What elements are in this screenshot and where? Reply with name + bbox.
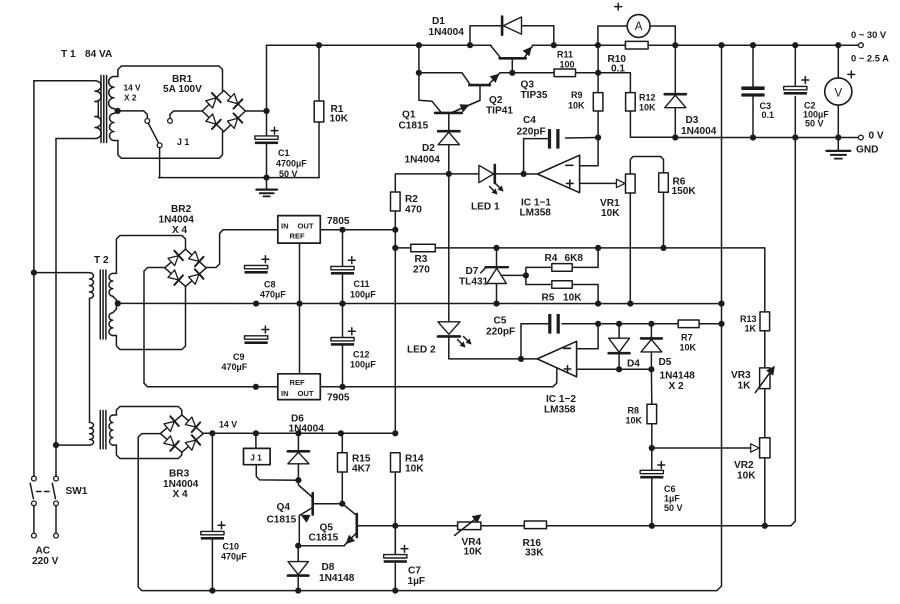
svg-text:R4: R4 bbox=[545, 253, 558, 264]
wire AC line right bbox=[55, 139, 57, 477]
diode D8 (1N4148) bbox=[288, 562, 308, 575]
wire IC1-1 noninverting to VR1 wiper bbox=[580, 182, 618, 184]
wire D1 bypass loop bbox=[470, 26, 554, 46]
transistor Q4 bbox=[311, 493, 314, 514]
svg-text:V: V bbox=[834, 87, 842, 99]
diode D3 (1N4004) bbox=[665, 93, 686, 96]
wire voltmeter column bbox=[837, 45, 839, 78]
svg-text:220pF: 220pF bbox=[486, 327, 515, 338]
wire Q3 collector bbox=[491, 45, 502, 58]
wire T2 primary bottom lead bbox=[56, 444, 90, 446]
transistor Q1 bbox=[435, 112, 462, 115]
wire R9 column bbox=[597, 45, 599, 92]
transistor Q3 bbox=[500, 57, 526, 60]
svg-text:84 VA: 84 VA bbox=[85, 49, 113, 60]
resistor R4 bbox=[552, 264, 572, 272]
svg-text:J 1: J 1 bbox=[177, 137, 189, 147]
wire Q3 base bbox=[511, 60, 513, 73]
transformer T2 core upper bbox=[99, 270, 101, 339]
svg-text:VR3: VR3 bbox=[731, 370, 751, 381]
wire LED2 to IC1-2 output bbox=[449, 356, 537, 359]
wire T1 secondary top to BR1 bbox=[118, 66, 223, 91]
terminal AC N bbox=[55, 505, 57, 533]
svg-text:R11: R11 bbox=[557, 50, 573, 60]
wire AC line left bbox=[33, 81, 35, 477]
resistor R2 bbox=[391, 192, 401, 211]
svg-text:BR3: BR3 bbox=[169, 469, 190, 480]
svg-text:R7: R7 bbox=[681, 333, 693, 343]
shunt regulator D7 (TL431) bbox=[485, 266, 508, 268]
diode D5 (1N4148) bbox=[641, 337, 662, 340]
transformer T3 secondary coil bbox=[109, 415, 113, 445]
svg-text:D5: D5 bbox=[659, 357, 672, 368]
svg-text:0.1: 0.1 bbox=[762, 110, 775, 120]
wire 0V sense drop to control rail bbox=[765, 138, 796, 526]
wire C4 link bbox=[524, 139, 548, 174]
svg-text:10K: 10K bbox=[626, 416, 643, 426]
svg-text:4700µF: 4700µF bbox=[276, 159, 307, 169]
svg-text:R3: R3 bbox=[415, 254, 428, 265]
svg-text:10K: 10K bbox=[563, 293, 582, 304]
svg-text:100: 100 bbox=[560, 60, 575, 70]
svg-text:C4: C4 bbox=[523, 115, 536, 126]
svg-text:BR2: BR2 bbox=[171, 204, 192, 215]
ground symbol GND bbox=[837, 140, 839, 151]
resistor R12 bbox=[626, 93, 636, 111]
wire C11 column bbox=[342, 230, 344, 266]
svg-text:C1: C1 bbox=[278, 148, 290, 158]
wire C12 column bbox=[342, 304, 344, 338]
svg-text:10K: 10K bbox=[568, 101, 585, 111]
svg-text:VR2: VR2 bbox=[734, 460, 754, 471]
svg-text:D1: D1 bbox=[432, 16, 445, 27]
svg-text:1N4004: 1N4004 bbox=[681, 126, 717, 137]
wire Q4 emitter drop bbox=[298, 516, 300, 544]
wire T3 secondary bottom to BR3 bbox=[116, 445, 181, 458]
diode D4 (1N4148) bbox=[609, 338, 630, 352]
wire Q2 emitter to Q3 base node bbox=[488, 73, 512, 85]
regulator 7905 box bbox=[278, 374, 321, 400]
relay J1 box bbox=[244, 448, 271, 464]
wire voltage set wiper line bbox=[652, 447, 751, 449]
ammeter A1 bbox=[627, 15, 650, 38]
wire IC1-2 inverting input bbox=[577, 324, 599, 349]
wire R5 right lead bbox=[572, 285, 598, 304]
svg-text:10K: 10K bbox=[330, 114, 349, 125]
wire main positive rail right segment (Q3 emitter to +V terminal) bbox=[533, 44, 859, 46]
svg-text:0 ~ 30 V: 0 ~ 30 V bbox=[851, 29, 887, 40]
svg-text:R12: R12 bbox=[639, 93, 656, 103]
wire IC1-1 output to LED1 node bbox=[524, 173, 538, 175]
wire R15 column bbox=[341, 433, 343, 453]
wire BR1 output bbox=[245, 110, 266, 112]
transformer T1 core bbox=[100, 76, 102, 143]
resistor R3 bbox=[411, 244, 436, 252]
wire control rail bbox=[395, 525, 457, 527]
svg-text:7905: 7905 bbox=[327, 393, 350, 404]
resistor R7 bbox=[678, 320, 699, 328]
wire T1 primary top lead bbox=[34, 80, 95, 82]
wire 7905 out to IC1-2 + bbox=[320, 368, 557, 387]
transformer T2 primary coil lower bbox=[90, 422, 94, 445]
svg-text:D2: D2 bbox=[422, 143, 435, 154]
svg-text:Q4: Q4 bbox=[277, 502, 291, 513]
diode D1 bbox=[501, 17, 504, 35]
svg-text:33K: 33K bbox=[525, 548, 544, 559]
wire J1 common drop bbox=[159, 148, 161, 178]
resistor R16 bbox=[524, 521, 546, 529]
wire C2 column upper bbox=[794, 45, 796, 86]
transistor Q5 bbox=[355, 514, 358, 537]
op-amp U2 IC1-2 (LM358) bbox=[537, 341, 576, 377]
svg-text:C1815: C1815 bbox=[309, 533, 339, 544]
wire BR2 in+ to 7805 bbox=[206, 230, 278, 268]
wire T1 primary bottom lead bbox=[56, 138, 95, 140]
bridge rectifier BR1 bbox=[202, 91, 224, 112]
wire clamp rail bbox=[598, 323, 678, 325]
wire R6 bottom bbox=[663, 192, 665, 248]
wire D7 ref bbox=[502, 274, 526, 276]
svg-text:10K: 10K bbox=[601, 208, 620, 219]
wire R4 left lead bbox=[526, 267, 552, 284]
svg-text:100µF: 100µF bbox=[350, 289, 376, 299]
wire C10 column bbox=[211, 433, 213, 531]
wire D2 column bbox=[448, 114, 450, 130]
wire T2 secondary top to BR2 bbox=[116, 236, 185, 274]
diode D2 (1N4004) bbox=[438, 130, 459, 133]
resistor R10 bbox=[625, 41, 648, 49]
wire C1 column bbox=[266, 111, 268, 136]
svg-text:1N4004: 1N4004 bbox=[405, 155, 441, 166]
svg-text:5A 100V: 5A 100V bbox=[163, 84, 202, 95]
wire R11 leads bbox=[512, 72, 554, 74]
bridge rectifier BR3 bbox=[160, 415, 181, 434]
svg-text:D8: D8 bbox=[322, 562, 335, 573]
wire D8 column bbox=[297, 546, 299, 562]
svg-text:C1815: C1815 bbox=[267, 515, 297, 526]
capacitor C1 bbox=[255, 136, 278, 139]
transformer T2 core lower bbox=[99, 411, 101, 449]
wire 14V rail bbox=[203, 432, 395, 434]
wire 7805 ref bbox=[299, 243, 301, 304]
svg-text:1N4148: 1N4148 bbox=[319, 573, 355, 584]
wire R12 jog and leads bbox=[598, 73, 630, 93]
svg-text:R8: R8 bbox=[628, 406, 640, 416]
svg-text:Q1: Q1 bbox=[402, 110, 416, 121]
svg-text:LED 2: LED 2 bbox=[407, 345, 436, 356]
svg-text:10K: 10K bbox=[639, 103, 656, 113]
wire D6 column bbox=[297, 433, 299, 450]
wire long vertical (R2/R14 column) upper bbox=[394, 211, 396, 433]
svg-text:1N4004: 1N4004 bbox=[159, 215, 195, 226]
svg-text:D4: D4 bbox=[627, 359, 640, 370]
capacitor C4 bbox=[548, 129, 551, 149]
svg-text:470: 470 bbox=[405, 205, 422, 216]
wire BR2 in- to 7905 bbox=[144, 268, 278, 387]
resistor R13 bbox=[760, 312, 770, 331]
capacitor C2 bbox=[784, 86, 807, 89]
wire R1 column bbox=[318, 45, 320, 101]
op-amp U1 IC1-1 (LM358) bbox=[537, 155, 579, 193]
jumper J1 lever bbox=[148, 123, 159, 143]
potentiometer VR2 bbox=[760, 438, 770, 458]
svg-text:14 V: 14 V bbox=[219, 420, 237, 430]
svg-text:6K8: 6K8 bbox=[565, 253, 584, 264]
svg-text:1µF: 1µF bbox=[664, 494, 680, 504]
svg-text:D7: D7 bbox=[466, 266, 479, 277]
svg-text:C12: C12 bbox=[353, 350, 370, 360]
wire C7 leads bbox=[394, 526, 396, 555]
capacitor C10 bbox=[201, 531, 224, 534]
svg-text:D3: D3 bbox=[686, 115, 699, 126]
wire LED1 wire bbox=[449, 173, 479, 175]
svg-text:X 4: X 4 bbox=[173, 489, 189, 500]
wire T3 secondary top to BR3 bbox=[116, 407, 181, 416]
transformer T2 secondary coil a bbox=[109, 273, 113, 296]
wire long vertical lower bbox=[394, 472, 396, 526]
svg-text:R9: R9 bbox=[571, 90, 583, 100]
svg-text:10K: 10K bbox=[737, 471, 756, 482]
svg-text:C9: C9 bbox=[233, 352, 245, 362]
transformer T2 primary coil upper bbox=[90, 273, 94, 299]
svg-text:C5: C5 bbox=[494, 316, 507, 327]
svg-text:LM358: LM358 bbox=[520, 208, 552, 219]
svg-text:LED 1: LED 1 bbox=[471, 202, 500, 213]
svg-text:REF: REF bbox=[290, 378, 306, 387]
svg-text:X 4: X 4 bbox=[172, 225, 188, 236]
wire C3 column bbox=[752, 45, 754, 86]
svg-text:50 V: 50 V bbox=[279, 169, 298, 179]
svg-text:100µF: 100µF bbox=[350, 360, 376, 370]
wire 0V rail bbox=[675, 137, 859, 139]
bridge rectifier BR2 bbox=[165, 249, 186, 268]
svg-text:J 1: J 1 bbox=[250, 453, 262, 463]
transformer T2 secondary coil b bbox=[109, 313, 113, 336]
capacitor C7 bbox=[384, 555, 407, 558]
svg-text:GND: GND bbox=[856, 145, 878, 156]
svg-text:C11: C11 bbox=[354, 279, 370, 289]
svg-text:1µF: 1µF bbox=[408, 576, 426, 587]
wire ground link C1/R1/J1 bbox=[159, 177, 319, 179]
svg-text:470µF: 470µF bbox=[221, 552, 247, 562]
svg-text:4K7: 4K7 bbox=[352, 464, 371, 475]
svg-text:IC 1−2: IC 1−2 bbox=[546, 394, 576, 405]
svg-text:0 ~ 2.5 A: 0 ~ 2.5 A bbox=[851, 53, 889, 64]
wire mid reference rail bbox=[118, 302, 722, 304]
wire R4 right lead bbox=[572, 248, 598, 268]
svg-text:10K: 10K bbox=[680, 343, 697, 353]
wire VR1 top loop to R6 bbox=[630, 157, 663, 175]
wire T1 secondary bottom to BR1 bbox=[118, 131, 223, 158]
svg-text:220pF: 220pF bbox=[517, 127, 546, 138]
switch SW1 link bbox=[37, 491, 50, 493]
svg-text:C10: C10 bbox=[223, 542, 240, 552]
svg-text:R5: R5 bbox=[542, 293, 555, 304]
transformer T1 secondary coil lower bbox=[110, 114, 115, 141]
wire J1 relay bottom lead bbox=[256, 465, 298, 481]
wire T2 secondary bottom to BR2 bbox=[116, 287, 185, 350]
svg-text:A: A bbox=[635, 21, 643, 33]
wire D4 column bbox=[618, 324, 620, 338]
svg-text:R2: R2 bbox=[405, 194, 418, 205]
diode D6 (1N4004) bbox=[288, 450, 309, 453]
capacitor C6 bbox=[640, 470, 663, 473]
wire R8 column bbox=[650, 369, 652, 404]
led LED2 bbox=[438, 322, 460, 335]
svg-text:1K: 1K bbox=[738, 381, 752, 392]
capacitor C11 bbox=[331, 266, 354, 269]
wire T2 primary link bbox=[89, 298, 91, 422]
wire R13/VR3/VR2 chain bbox=[764, 248, 766, 312]
switch SW1 pole 2 bbox=[54, 476, 59, 481]
svg-text:0 V: 0 V bbox=[869, 130, 884, 141]
svg-text:Q2: Q2 bbox=[489, 95, 503, 106]
wire D5 column bbox=[650, 324, 652, 338]
wire Q4 base lead bbox=[298, 480, 312, 497]
led LED1 bbox=[479, 165, 494, 182]
resistor R5 bbox=[552, 281, 572, 289]
svg-text:OUT: OUT bbox=[298, 389, 314, 398]
svg-text:LM358: LM358 bbox=[544, 405, 576, 416]
terminal AC L bbox=[33, 505, 35, 533]
jumper J1 pole a bbox=[145, 119, 150, 124]
transformer T1 primary coil bbox=[95, 81, 101, 102]
switch SW1 pole 1 bbox=[32, 476, 37, 481]
wire IC1-2 noninverting line bbox=[577, 368, 652, 370]
svg-text:Q3: Q3 bbox=[521, 80, 535, 91]
wire VR1 bottom bbox=[629, 193, 631, 304]
wire +V output stub bbox=[838, 44, 859, 46]
svg-text:0.1: 0.1 bbox=[611, 64, 625, 75]
potentiometer VR1 bbox=[626, 174, 636, 193]
wire Q4 collector bbox=[314, 503, 343, 505]
wire D7 column bbox=[496, 248, 498, 266]
resistor R14 bbox=[391, 453, 401, 472]
svg-text:TIP35: TIP35 bbox=[521, 90, 548, 101]
svg-text:C8: C8 bbox=[264, 280, 276, 290]
terminal +V output bbox=[859, 43, 864, 48]
svg-text:C6: C6 bbox=[664, 484, 676, 494]
wire IC1-1 inverting input bbox=[580, 138, 599, 166]
svg-text:X 2: X 2 bbox=[124, 92, 137, 102]
svg-text:OUT: OUT bbox=[298, 222, 314, 231]
potentiometer VR4 bbox=[458, 522, 481, 530]
capacitor C9 bbox=[245, 336, 268, 339]
resistor R6 bbox=[659, 173, 669, 192]
regulator 7805 box bbox=[278, 216, 321, 244]
svg-text:AC: AC bbox=[36, 546, 51, 557]
svg-text:50 V: 50 V bbox=[664, 503, 683, 513]
jumper J1 pole b bbox=[168, 119, 173, 124]
svg-text:1N4004: 1N4004 bbox=[289, 424, 325, 435]
wire adjust rail R3/R4 bbox=[395, 247, 411, 249]
svg-text:470µF: 470µF bbox=[222, 362, 248, 372]
svg-text:1K: 1K bbox=[745, 324, 757, 334]
svg-text:TL431: TL431 bbox=[459, 277, 489, 288]
resistor R8 bbox=[647, 404, 657, 424]
wire C5 loop bbox=[521, 324, 548, 359]
wire T2 primary top lead bbox=[34, 272, 90, 274]
wire Q2 collector link bbox=[419, 73, 471, 85]
resistor R11 bbox=[554, 69, 575, 77]
svg-text:R13: R13 bbox=[740, 314, 757, 324]
wire Q1 collector riser bbox=[419, 45, 442, 113]
svg-text:T 2: T 2 bbox=[94, 255, 109, 266]
svg-text:X 2: X 2 bbox=[669, 381, 685, 392]
svg-text:270: 270 bbox=[413, 265, 430, 276]
wire 7905 ref bbox=[299, 304, 301, 374]
svg-text:C1815: C1815 bbox=[399, 121, 429, 132]
wire Q5 base lead bbox=[342, 504, 356, 515]
wire Q3 emitter bbox=[524, 45, 533, 58]
svg-text:10K: 10K bbox=[405, 464, 424, 475]
wire R2 top link bbox=[395, 174, 449, 192]
svg-text:470µF: 470µF bbox=[260, 290, 286, 300]
svg-text:SW1: SW1 bbox=[66, 486, 88, 497]
resistor R1 bbox=[314, 101, 324, 122]
svg-text:7805: 7805 bbox=[327, 216, 350, 227]
wire Q5 emitter link bbox=[298, 545, 344, 547]
wire T1 tap to J1 bbox=[118, 111, 148, 119]
voltmeter V1 bbox=[825, 78, 852, 105]
transistor Q2 bbox=[469, 84, 490, 87]
resistor R9 bbox=[593, 93, 603, 111]
svg-text:50 V: 50 V bbox=[805, 119, 824, 129]
wire 7805 out line bbox=[320, 229, 395, 231]
capacitor C5 bbox=[548, 314, 551, 334]
capacitor C3 bbox=[741, 86, 764, 90]
svg-text:IN: IN bbox=[281, 222, 289, 231]
wire C6 column bbox=[651, 448, 653, 470]
ground symbol at C1 bbox=[256, 189, 277, 191]
wire Q1 emitter to Q2 base bbox=[451, 87, 480, 113]
terminal 0V output bbox=[859, 135, 864, 140]
svg-text:1N4148: 1N4148 bbox=[660, 371, 696, 382]
wire T2 tap bbox=[117, 302, 119, 304]
wire raw supply riser from BR1 output bbox=[266, 45, 268, 111]
wire D3 column bbox=[674, 45, 676, 94]
junction dots bbox=[316, 42, 322, 48]
wire J1 relay top lead bbox=[255, 433, 257, 448]
resistor R15 bbox=[338, 453, 348, 472]
wire BR3 negative return bbox=[138, 434, 395, 591]
svg-text:IN: IN bbox=[281, 389, 289, 398]
wire main positive rail left segment bbox=[267, 44, 492, 46]
wire BR1 ac2 to J1 bbox=[170, 111, 202, 119]
svg-text:T 1: T 1 bbox=[61, 49, 76, 60]
transformer T1 secondary coil upper bbox=[109, 77, 114, 109]
wire aux ground drop (raw+ to BR3 return) bbox=[395, 45, 721, 590]
wire ammeter loop bbox=[598, 26, 627, 45]
svg-text:TIP41: TIP41 bbox=[486, 106, 513, 117]
potentiometer VR3 bbox=[760, 368, 770, 389]
svg-text:REF: REF bbox=[290, 232, 306, 241]
svg-text:10K: 10K bbox=[464, 547, 483, 558]
svg-text:14 V: 14 V bbox=[124, 83, 142, 93]
wire Q5 collector to control rail bbox=[357, 525, 396, 527]
capacitor C8 bbox=[245, 265, 268, 268]
svg-text:C7: C7 bbox=[408, 566, 421, 577]
wire LED2 column bbox=[448, 174, 450, 322]
svg-text:150K: 150K bbox=[672, 186, 697, 197]
svg-text:1N4004: 1N4004 bbox=[429, 27, 465, 38]
svg-text:220 V: 220 V bbox=[32, 556, 59, 567]
capacitor C12 bbox=[331, 338, 354, 341]
